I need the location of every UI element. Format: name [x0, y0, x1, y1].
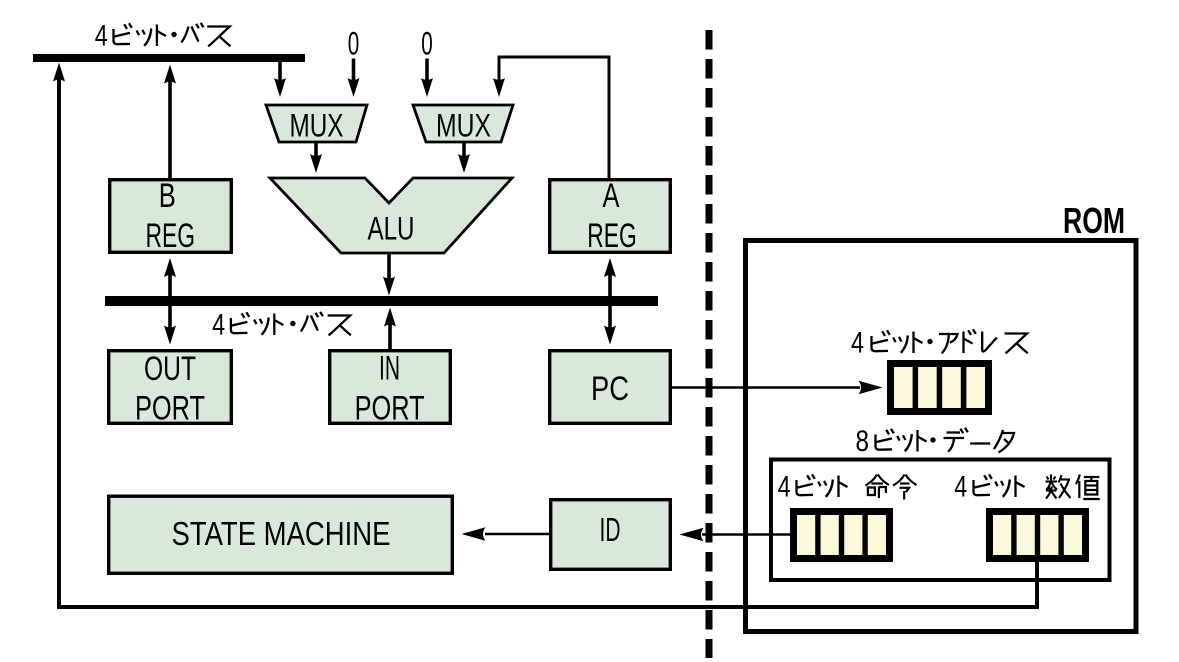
register OUT PORT: [109, 351, 232, 424]
label: 4ビット 命令: [778, 471, 917, 504]
svg-text:4: 4: [95, 20, 108, 53]
register IN PORT: [330, 351, 451, 424]
register B REG: [110, 180, 232, 253]
svg-text:STATE MACHINE: STATE MACHINE: [172, 515, 391, 552]
arrow: PC to ROM address register: [672, 386, 860, 389]
ROM address register (4 cells): [887, 360, 992, 415]
arrow: IN PORT up to bus2: [388, 320, 392, 349]
svg-text:4: 4: [954, 471, 967, 504]
wire: value register down to bottom feedback: [1035, 560, 1039, 609]
arrow: ALU to bus2: [387, 253, 391, 281]
svg-text:A: A: [603, 177, 620, 215]
arrow: bus1 down to MUX1: [278, 62, 282, 84]
bus 2 (lower 4-bit bus): [105, 296, 658, 306]
double arrow: B REG to OUT PORT through bus2: [168, 272, 172, 330]
MUX 2: [413, 105, 513, 142]
label: 4ビット 数値: [954, 471, 1100, 504]
register A REG: [550, 180, 671, 253]
wire: A REG feedback up and over to MUX2: [499, 57, 609, 178]
svg-text:8: 8: [856, 425, 870, 458]
ALU: [270, 178, 512, 253]
ROM instruction register (4 cells): [790, 508, 893, 562]
svg-text:PC: PC: [591, 370, 629, 408]
svg-text:4: 4: [212, 309, 225, 342]
ROM value register (4 cells): [986, 508, 1089, 562]
label: 4ビット・アドレス: [851, 327, 1028, 360]
svg-text:ALU: ALU: [368, 211, 415, 247]
arrow: 0 down to MUX2: [425, 59, 429, 85]
svg-text:MUX: MUX: [436, 108, 491, 144]
box ID (instruction decoder): [551, 500, 671, 570]
label: 8ビット・データ: [856, 425, 1014, 458]
svg-text:0: 0: [421, 26, 433, 62]
label: 4ビット・バス (middle): [212, 309, 351, 342]
svg-text:4: 4: [851, 327, 864, 360]
svg-text:REG: REG: [587, 217, 637, 255]
svg-text:ID: ID: [600, 511, 621, 548]
svg-text:B: B: [159, 177, 176, 215]
wire: left feedback vertical line: [57, 76, 61, 607]
svg-text:REG: REG: [146, 217, 196, 255]
arrow: ID to STATE MACHINE: [485, 533, 549, 536]
svg-text:MUX: MUX: [290, 108, 344, 144]
double arrow: A REG to PC through bus2: [608, 272, 612, 330]
svg-text:IN: IN: [379, 350, 400, 388]
arrow: instruction register to ID: [702, 533, 790, 536]
arrow: B REG to bus1: [168, 78, 172, 178]
dashed separator line: [706, 30, 713, 658]
svg-text:PORT: PORT: [135, 390, 205, 428]
svg-text:4: 4: [778, 471, 791, 504]
bus 1 (top 4-bit bus): [33, 54, 305, 62]
svg-text:PORT: PORT: [355, 390, 425, 428]
label: 4ビット・バス (top): [95, 20, 231, 53]
arrow: MUX1 to ALU: [314, 142, 318, 160]
register PC: [550, 351, 671, 424]
box STATE MACHINE: [109, 496, 453, 573]
box ROM: [746, 241, 1137, 632]
svg-text:OUT: OUT: [144, 350, 196, 388]
svg-text:ROM: ROM: [1063, 200, 1125, 241]
box 8-bit data (inner ROM box): [771, 460, 1110, 581]
MUX 1: [266, 105, 367, 142]
arrow: MUX2 to ALU: [462, 142, 466, 160]
wire: bottom feedback horizontal: [57, 605, 1037, 609]
arrow: 0 down to MUX1: [352, 59, 356, 85]
arrowhead into bus1 from left line: [53, 63, 65, 82]
svg-text:0: 0: [348, 26, 360, 62]
